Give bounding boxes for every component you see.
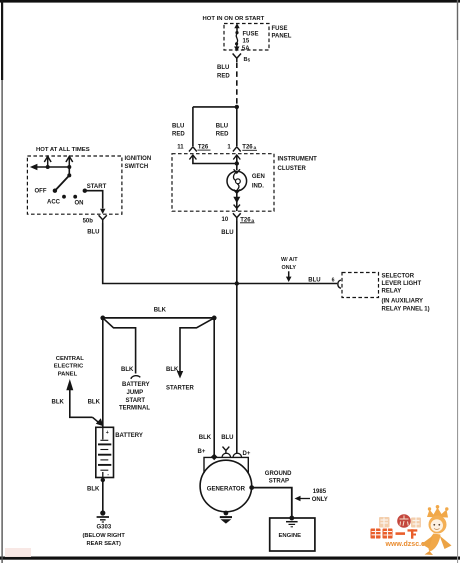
- generator cap: [204, 457, 248, 473]
- svg-text:B+: B+: [198, 449, 206, 455]
- node junction inside cluster: [235, 161, 239, 165]
- node engine ground: [289, 516, 294, 521]
- svg-text:INSTRUMENT: INSTRUMENT: [278, 156, 318, 162]
- wire starter branch: [180, 318, 214, 372]
- svg-text:ONLY: ONLY: [312, 497, 328, 503]
- svg-text:BATTERY: BATTERY: [115, 433, 143, 439]
- svg-text:RED: RED: [172, 132, 185, 138]
- svg-text:HOT AT ALL TIMES: HOT AT ALL TIMES: [36, 147, 90, 153]
- wire horizontal branch at top: [193, 106, 237, 108]
- ignition feed arrows: [44, 156, 72, 167]
- ignition switch dashed box: [27, 156, 122, 214]
- ground marks in engine: [286, 521, 298, 523]
- wire inside cluster left branch: [193, 156, 237, 164]
- node below battery: [101, 478, 105, 482]
- battery: [96, 427, 114, 478]
- svg-text:RED: RED: [217, 73, 230, 79]
- svg-text:RELAY PANEL 1): RELAY PANEL 1): [382, 306, 430, 312]
- svg-text:BLK: BLK: [121, 367, 134, 373]
- svg-text:START: START: [87, 184, 107, 190]
- svg-text:ENGINE: ENGINE: [279, 533, 302, 539]
- svg-text:6: 6: [332, 278, 335, 284]
- faded text 找芯片: [379, 517, 421, 528]
- svg-text:15: 15: [243, 39, 250, 45]
- connector bump D+ 2: [233, 453, 241, 457]
- node bus left: [100, 316, 105, 321]
- wire from 50b down and right: [103, 223, 237, 284]
- svg-text:ONLY: ONLY: [282, 265, 297, 271]
- wire ground strap: [252, 488, 292, 517]
- wire right vertical to terminal 1: [236, 107, 238, 146]
- switch contacts OFF ACC ON START: [53, 189, 57, 193]
- svg-text:LEVER LIGHT: LEVER LIGHT: [382, 281, 422, 287]
- svg-text:IND.: IND.: [252, 183, 264, 189]
- lamp GEN IND: [227, 171, 247, 191]
- svg-text:G303: G303: [97, 525, 112, 531]
- node junction mid: [235, 281, 239, 285]
- arrow into lamp: [234, 169, 240, 173]
- switch wiper: [68, 167, 70, 175]
- svg-text:BATTERY: BATTERY: [122, 382, 150, 388]
- arrow to starter: [177, 371, 183, 379]
- svg-text:1985: 1985: [313, 489, 327, 495]
- generator circle: [200, 460, 252, 512]
- node B+ junction: [211, 454, 218, 461]
- connector Y above: [223, 447, 230, 454]
- mascot: [422, 505, 452, 555]
- svg-text:W/ A/T: W/ A/T: [281, 257, 298, 263]
- svg-text:SELECTOR: SELECTOR: [382, 273, 415, 279]
- svg-text:RELAY: RELAY: [382, 289, 402, 295]
- connector at battery jump terminal: [131, 376, 140, 379]
- connector bump D+ 1: [222, 453, 230, 457]
- svg-text:BLK: BLK: [199, 435, 212, 441]
- fuse FUSE 15 5A: [234, 23, 240, 51]
- svg-text:a: a: [251, 219, 254, 224]
- wire left branch vertical: [192, 107, 194, 146]
- svg-text:JUMP: JUMP: [127, 390, 144, 396]
- svg-text:ACC: ACC: [47, 200, 61, 206]
- wire to selector relay: [237, 283, 337, 285]
- connector B5 below fuse panel: [233, 54, 241, 63]
- wire ignition bus: [35, 166, 69, 168]
- red badge 芯: [397, 514, 411, 528]
- svg-text:BLK: BLK: [154, 308, 167, 314]
- svg-text:50b: 50b: [83, 218, 94, 224]
- terminal 1 T26a: [227, 144, 257, 159]
- svg-text:OFF: OFF: [35, 188, 47, 194]
- svg-text:BLU: BLU: [217, 65, 229, 71]
- wire below lamp with arrows: [236, 191, 238, 211]
- connector 50b: [99, 215, 107, 223]
- arrow to central electric panel: [66, 379, 73, 390]
- arrow into battery wire: [96, 418, 104, 426]
- svg-text:GENERATOR: GENERATOR: [207, 485, 246, 492]
- svg-text:BLU: BLU: [221, 435, 233, 441]
- svg-text:RED: RED: [216, 132, 229, 138]
- svg-text:BLU: BLU: [308, 277, 320, 283]
- svg-text:PANEL: PANEL: [272, 34, 292, 40]
- node dots on ignition bus: [46, 165, 50, 169]
- text 维库一下: [371, 529, 418, 539]
- svg-text:ON: ON: [75, 200, 84, 206]
- svg-text:FUSE: FUSE: [243, 32, 259, 38]
- arrow left feed: [30, 164, 38, 170]
- svg-text:BLK: BLK: [166, 367, 179, 373]
- svg-text:TERMINAL: TERMINAL: [119, 406, 150, 412]
- selector lever light relay dashed box: [342, 273, 379, 298]
- svg-text:5A: 5A: [242, 46, 250, 52]
- svg-text:REAR SEAT): REAR SEAT): [87, 541, 121, 547]
- fuse panel dashed box: [224, 24, 269, 51]
- svg-text:+: +: [106, 430, 109, 436]
- svg-text:ELECTRIC: ELECTRIC: [54, 364, 84, 370]
- svg-text:BLK: BLK: [52, 399, 65, 405]
- wire junction to generator D+: [236, 284, 238, 454]
- wire bus to battery: [102, 318, 104, 427]
- svg-text:GROUND: GROUND: [265, 471, 292, 477]
- svg-text:11: 11: [177, 144, 184, 150]
- arrow chevron above box edge: [234, 205, 240, 209]
- svg-text:PANEL: PANEL: [58, 371, 78, 377]
- node bus right: [212, 316, 217, 321]
- svg-text:10: 10: [222, 217, 229, 223]
- svg-text:IGNITION: IGNITION: [125, 156, 152, 162]
- wire ground bus: [103, 317, 214, 319]
- svg-text:HOT IN ON OR START: HOT IN ON OR START: [203, 16, 265, 22]
- node junction top: [235, 105, 239, 109]
- svg-text:BLU: BLU: [221, 230, 233, 236]
- svg-text:-: -: [107, 472, 109, 478]
- arrow chevron below lamp: [234, 190, 240, 194]
- svg-text:BLU: BLU: [216, 124, 228, 130]
- arrow solid triangle: [233, 197, 240, 203]
- wire down to lamp: [236, 156, 238, 170]
- svg-text:BLK: BLK: [88, 399, 101, 405]
- connector at relay: [338, 280, 341, 288]
- svg-text:T26: T26: [242, 144, 253, 150]
- wire central electric panel branch: [70, 390, 93, 418]
- wire battery jump start branch: [103, 318, 136, 374]
- wire bus to generator B+: [213, 318, 215, 457]
- engine box: [270, 518, 315, 551]
- svg-text:BLU: BLU: [87, 230, 99, 236]
- svg-text:FUSE: FUSE: [272, 26, 288, 32]
- svg-text:GEN: GEN: [252, 174, 265, 180]
- svg-text:T26: T26: [198, 144, 209, 150]
- svg-text:BLK: BLK: [87, 486, 100, 492]
- svg-text:(BELOW RIGHT: (BELOW RIGHT: [83, 533, 126, 539]
- watermark: [5, 505, 452, 557]
- arrow at box edge: [100, 209, 105, 214]
- terminal 10 T26a: [222, 213, 255, 224]
- svg-text:STRAP: STRAP: [269, 479, 289, 485]
- svg-text:BLU: BLU: [172, 124, 184, 130]
- svg-text:(IN AUXILIARY: (IN AUXILIARY: [382, 298, 424, 304]
- instrument cluster dashed box: [172, 154, 274, 212]
- node generator right: [249, 485, 254, 490]
- svg-text:SWITCH: SWITCH: [125, 164, 149, 170]
- svg-text:START: START: [126, 398, 146, 404]
- svg-text:CLUSTER: CLUSTER: [278, 166, 307, 172]
- svg-text:STARTER: STARTER: [166, 385, 195, 391]
- wire from START out of box: [85, 191, 103, 209]
- wire from cluster to junction: [236, 221, 238, 284]
- wire dashed vertical from fuse to junction: [236, 63, 238, 105]
- svg-text:D+: D+: [243, 451, 251, 457]
- terminal 11 T26: [177, 144, 210, 159]
- ground G303: [97, 510, 109, 522]
- wire battery to ground: [102, 480, 104, 512]
- generator ground: [220, 511, 232, 524]
- svg-text:CENTRAL: CENTRAL: [56, 356, 85, 362]
